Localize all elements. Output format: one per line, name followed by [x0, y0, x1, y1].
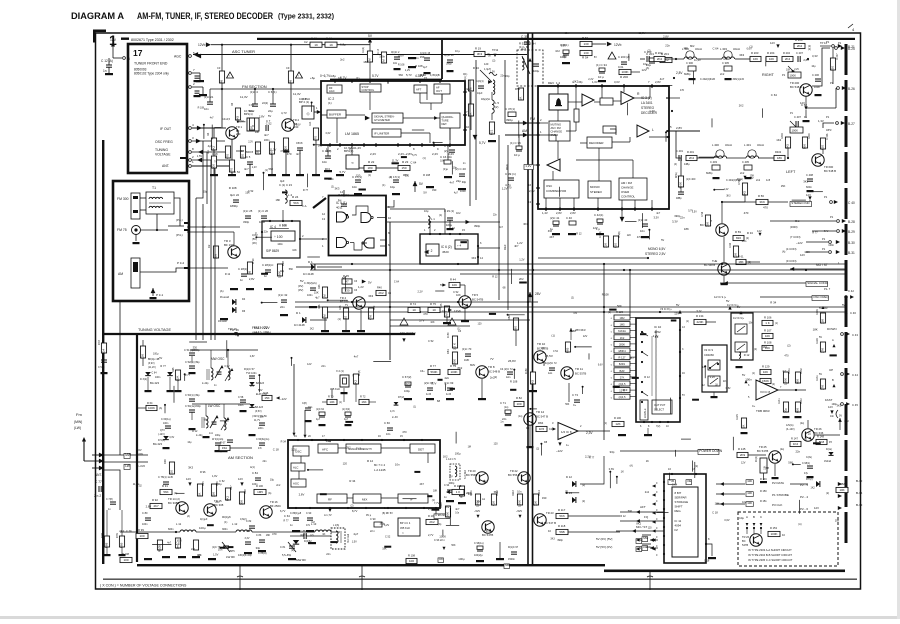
svg-text:FQ: FQ	[644, 515, 649, 519]
grounds row	[210, 174, 218, 176]
svg-text:430(2)3~20p: 430(2)3~20p	[238, 554, 252, 557]
svg-text:R 108: R 108	[602, 293, 609, 297]
svg-text:1K: 1K	[488, 54, 491, 57]
ENABLE box	[640, 400, 648, 420]
svg-text:10n: 10n	[447, 155, 452, 159]
svg-text:56K: 56K	[803, 144, 807, 149]
wire	[140, 268, 184, 272]
svg-text:3,3V: 3,3V	[245, 537, 250, 540]
resistor R108c	[406, 558, 417, 563]
svg-text:C 28(1): C 28(1)	[238, 267, 247, 271]
svg-text:R 203: R 203	[751, 51, 759, 55]
IC10 switches	[642, 332, 648, 336]
svg-text:5.7V: 5.7V	[372, 74, 379, 78]
div4 box	[455, 240, 468, 249]
svg-text:3K3: 3K3	[368, 294, 373, 298]
svg-text:R 5(8): R 5(8)	[599, 231, 602, 238]
nand gate 1	[337, 212, 347, 222]
svg-text:L 1(6): L 1(6)	[333, 524, 339, 527]
wire mw lw	[104, 454, 124, 456]
svg-text:R 123: R 123	[616, 310, 623, 314]
transistor TR26	[750, 534, 762, 546]
svg-text:(2): (2)	[808, 48, 811, 51]
svg-text:18K: 18K	[433, 490, 438, 493]
svg-text:5,5~65p: 5,5~65p	[282, 554, 292, 557]
resistor R75	[428, 307, 440, 312]
svg-text:3K3: 3K3	[335, 187, 340, 191]
svg-text:R 22: R 22	[368, 160, 375, 164]
svg-text:1,5V: 1,5V	[197, 154, 203, 158]
conn B-21	[832, 45, 835, 48]
svg-text:B-26: B-26	[848, 87, 855, 91]
svg-text:R 108: R 108	[764, 341, 772, 345]
svg-text:TR 2: TR 2	[293, 118, 300, 122]
svg-text:560: 560	[823, 306, 828, 310]
svg-text:RF: RF	[328, 498, 332, 502]
resistor R118	[556, 529, 568, 534]
svg-text:R 80: R 80	[446, 332, 450, 338]
svg-text:STORAGE: STORAGE	[675, 500, 689, 504]
grounds la1245	[292, 530, 300, 532]
div2 box	[426, 244, 439, 256]
svg-text:10K: 10K	[747, 479, 752, 483]
AF OUT box	[434, 84, 450, 94]
wire stubs 1	[203, 125, 205, 139]
svg-text:R(1s): R(1s)	[737, 178, 743, 181]
resistor R100b	[612, 421, 624, 426]
svg-text:C 52(1) (39p: C 52(1) (39p	[185, 360, 200, 364]
bandpass BP2	[302, 106, 314, 119]
svg-text:C 66: C 66	[384, 421, 390, 425]
svg-text:10: 10	[344, 316, 348, 320]
svg-text:BC 556B: BC 556B	[466, 473, 477, 477]
svg-text:LA 3401: LA 3401	[641, 101, 653, 105]
resistor R110	[445, 506, 450, 517]
resistor R61b	[140, 346, 145, 358]
IC9a switches	[708, 360, 720, 370]
svg-text:2n2: 2n2	[756, 179, 761, 182]
resistor R7	[240, 146, 245, 158]
long wire mono	[538, 257, 648, 259]
svg-text:(1): (1)	[775, 322, 778, 325]
svg-text:12V: 12V	[110, 38, 117, 42]
svg-text:10K: 10K	[430, 322, 435, 324]
svg-text:(2): (2)	[787, 343, 790, 347]
svg-text:(0V): (0V)	[298, 288, 303, 292]
svg-text:FM 300: FM 300	[117, 197, 129, 201]
svg-text:C 67(2): C 67(2)	[402, 375, 411, 379]
legend type 2331/2302	[121, 38, 129, 40]
svg-text:6,7V: 6,7V	[280, 509, 286, 513]
svg-text:10K: 10K	[715, 501, 720, 505]
resistor R79	[448, 369, 460, 374]
resistor R64	[146, 405, 157, 410]
corner mark	[93, 30, 106, 33]
wire	[140, 229, 168, 231]
svg-text:100K: 100K	[784, 378, 788, 385]
trimmer	[480, 70, 492, 82]
svg-text:TURE: TURE	[442, 119, 449, 123]
svg-text:150K: 150K	[762, 379, 769, 383]
svg-text:1/2 IC 9 (+: 1/2 IC 9 (+	[727, 304, 739, 307]
svg-text:10n: 10n	[260, 416, 265, 419]
IC9 grounds	[711, 396, 718, 398]
svg-text:(1): (1)	[339, 402, 342, 404]
svg-text:1K: 1K	[621, 469, 624, 473]
svg-text:150: 150	[401, 166, 406, 170]
svg-text:(1): (1)	[608, 311, 611, 314]
svg-text:1M: 1M	[382, 59, 386, 64]
resistor ladder R123-R135	[614, 315, 630, 320]
resistor R156	[820, 313, 825, 323]
svg-text:C 52: C 52	[801, 103, 807, 107]
svg-text:4n7: 4n7	[244, 167, 249, 171]
svg-text:C 52: C 52	[428, 339, 434, 343]
svg-text:2,2V: 2,2V	[432, 152, 438, 156]
svg-text:12Vb: 12Vb	[198, 43, 206, 47]
svg-text:68: 68	[766, 466, 770, 470]
svg-text:BA 423: BA 423	[256, 382, 265, 385]
svg-text:AM: AM	[522, 129, 527, 133]
bus wire 1	[295, 301, 538, 303]
wire	[557, 110, 559, 121]
resistor R26	[213, 246, 218, 258]
transistor TR14	[176, 502, 188, 514]
svg-text:10μ: 10μ	[811, 65, 816, 68]
svg-text:R 12: R 12	[644, 375, 650, 379]
AMFM CHANGE OVER CONTROL box	[619, 178, 647, 200]
wire v11	[511, 60, 513, 108]
svg-text:8C 7 C 4: 8C 7 C 4	[374, 463, 385, 467]
svg-text:R 206: R 206	[795, 38, 803, 42]
svg-text:1K: 1K	[715, 384, 718, 387]
svg-text:(A): (A)	[389, 176, 392, 179]
resistor R82	[513, 318, 518, 330]
supply arrow 5V	[413, 181, 418, 186]
resistor R148	[816, 439, 827, 444]
svg-text:R 108: R 108	[415, 64, 423, 68]
svg-text:BC 548 B: BC 548 B	[790, 85, 802, 89]
svg-text:S/P 8629: S/P 8629	[266, 249, 279, 253]
svg-text:R402: R402	[775, 150, 782, 154]
resistor R13	[283, 138, 288, 150]
resistor R11	[211, 156, 216, 168]
trimmer mw	[215, 366, 222, 378]
svg-text:100μ: 100μ	[455, 452, 461, 456]
svg-text:5K6: 5K6	[559, 514, 565, 518]
svg-text:CD4066: CD4066	[704, 353, 714, 357]
svg-text:32mH: 32mH	[757, 143, 764, 147]
IF transformer L16	[331, 528, 345, 549]
wire tr26	[815, 434, 840, 436]
svg-text:150: 150	[831, 66, 835, 71]
transistor TR15	[204, 504, 216, 516]
svg-text:1K5: 1K5	[743, 191, 747, 197]
svg-text:10K: 10K	[769, 57, 774, 61]
svg-text:(2): (2)	[826, 492, 829, 495]
svg-text:1K8: 1K8	[531, 380, 535, 386]
svg-text:MUTING: MUTING	[551, 123, 562, 127]
svg-text:560: 560	[269, 167, 274, 171]
svg-text:8050102 Type 2304 only: 8050102 Type 2304 only	[134, 72, 169, 76]
wire	[321, 114, 327, 116]
svg-text:10: 10	[388, 216, 392, 220]
svg-text:6,8μ: 6,8μ	[340, 43, 346, 47]
svg-text:2,8V: 2,8V	[556, 211, 562, 215]
svg-text:(1) C 36: (1) C 36	[510, 141, 521, 145]
resistor R67	[219, 445, 230, 450]
wire v1	[195, 198, 197, 340]
grounds x2	[341, 392, 348, 394]
svg-text:10μ: 10μ	[270, 478, 275, 481]
resistor R121v	[783, 372, 788, 383]
svg-text:(2): (2)	[310, 533, 313, 537]
svg-text:DOWN: DOWN	[827, 327, 837, 331]
wire drop3	[649, 571, 651, 590]
pins bottom	[545, 208, 547, 210]
svg-text:*YB: *YB	[669, 479, 674, 483]
resistor R112	[491, 494, 496, 505]
svg-text:(2): (2)	[648, 49, 651, 53]
wire mesh fm	[213, 128, 215, 138]
svg-text:(2s): (2s)	[780, 448, 784, 451]
svg-text:C 44: C 44	[852, 373, 858, 377]
svg-text:22n: 22n	[796, 450, 801, 454]
svg-text:R110: R110	[440, 502, 443, 508]
svg-text:5V: 5V	[839, 414, 842, 417]
svg-text:1K5: 1K5	[539, 427, 545, 431]
IC U6 4520 box	[420, 234, 478, 264]
IC U7 LA1245 box	[288, 440, 440, 508]
svg-text:BC 548 B: BC 548 B	[488, 370, 500, 374]
svg-text:18K: 18K	[214, 254, 218, 259]
resistor R74	[408, 307, 420, 312]
capacitor C1	[195, 75, 200, 77]
svg-text:100n: 100n	[745, 378, 752, 382]
svg-text:1M: 1M	[323, 294, 327, 299]
svg-text:R113: R113	[512, 490, 515, 496]
svg-text:1 K: 1 K	[456, 490, 461, 494]
svg-text:1M: 1M	[445, 313, 449, 318]
OUTPUT SELECT box	[652, 400, 672, 414]
svg-text:B: B	[832, 378, 834, 382]
svg-text:22n: 22n	[445, 376, 450, 380]
supply 5V top	[368, 38, 372, 43]
svg-text:(2): (2)	[536, 448, 539, 451]
transistor TR200	[800, 84, 812, 96]
svg-text:56K: 56K	[563, 56, 568, 59]
svg-text:26,8V: 26,8V	[508, 359, 516, 363]
svg-text:0μC 22: 0μC 22	[230, 193, 240, 197]
svg-text:1,2V: 1,2V	[519, 258, 525, 262]
SIGNAL STRENGTH box	[346, 444, 381, 453]
IC10 bottom pins	[643, 421, 645, 423]
svg-text:Fm: Fm	[76, 412, 82, 417]
svg-text:(1): (1)	[413, 406, 416, 408]
svg-text:0,6V: 0,6V	[598, 364, 603, 366]
svg-text:100μ: 100μ	[458, 557, 465, 561]
resistor R77	[428, 369, 440, 374]
svg-text:R89: R89	[120, 542, 124, 548]
svg-text:R 17: R 17	[377, 48, 380, 54]
ground cluster	[230, 288, 238, 290]
svg-text:R42: R42	[373, 305, 376, 310]
wire v12	[603, 264, 605, 440]
svg-text:R38: R38	[339, 305, 342, 310]
svg-text:R 77: R 77	[430, 364, 436, 368]
svg-text:P1: P1	[826, 115, 830, 119]
svg-text:1K: 1K	[519, 97, 523, 101]
bottom thin line	[103, 579, 857, 580]
svg-text:2n2: 2n2	[340, 58, 345, 62]
svg-text:C 42: C 42	[848, 289, 854, 293]
svg-text:4.8μ: 4.8μ	[330, 74, 336, 78]
svg-text:BC 547B: BC 547B	[757, 449, 768, 453]
resistor R115	[452, 489, 464, 494]
svg-text:10K: 10K	[765, 334, 770, 338]
IC2 pin ticks	[329, 143, 331, 147]
resistor R59	[733, 235, 744, 240]
svg-text:(8) RF 5V: (8) RF 5V	[382, 512, 393, 515]
svg-text:C(2)(1): C(2)(1)	[476, 80, 484, 83]
svg-text:100n: 100n	[142, 523, 148, 526]
svg-text:C 401: C 401	[676, 149, 683, 153]
svg-text:1,2V: 1,2V	[252, 166, 257, 169]
svg-text:C 18: C 18	[212, 152, 218, 156]
svg-text:10,7MHz: 10,7MHz	[244, 109, 255, 113]
svg-text:4n7: 4n7	[656, 212, 661, 215]
filter rect	[600, 98, 613, 105]
svg-text:C4n4,5: C4n4,5	[222, 118, 231, 121]
svg-text:820: 820	[614, 243, 618, 248]
svg-text:C 45: C 45	[852, 403, 858, 407]
outer border frame	[96, 33, 861, 589]
antenna box	[113, 181, 189, 301]
svg-text:BC 557B: BC 557B	[575, 372, 586, 376]
svg-text:1,2V: 1,2V	[463, 308, 468, 310]
resistor R40	[376, 290, 386, 295]
svg-text:100K: 100K	[770, 532, 777, 536]
svg-text:OVER: OVER	[621, 190, 629, 194]
resistor R202	[654, 56, 665, 61]
svg-text:3K3: 3K3	[622, 388, 628, 392]
wire bp2 out	[314, 111, 320, 113]
strobe wire	[746, 492, 753, 497]
svg-text:1 K: 1 K	[765, 321, 770, 325]
svg-text:(A): (A)	[318, 144, 322, 148]
svg-text:9V μ: 9V μ	[366, 514, 372, 517]
svg-text:R 54: R 54	[582, 56, 589, 60]
svg-text:R105: R105	[158, 545, 162, 553]
svg-text:R 145: R 145	[738, 447, 746, 451]
svg-text:4n7: 4n7	[660, 77, 665, 81]
svg-text:(1) C 26: (1) C 26	[258, 209, 269, 213]
svg-text:4K7: 4K7	[514, 245, 519, 248]
wire drop4	[457, 540, 459, 563]
svg-text:C 407: C 407	[794, 115, 801, 119]
svg-text:5,7V: 5,7V	[688, 211, 693, 213]
svg-text:POWER DOWN: POWER DOWN	[699, 449, 723, 453]
heavy rail B	[532, 33, 534, 565]
pot arrow	[465, 82, 476, 92]
svg-text:(Type 2331, 2332): (Type 2331, 2332)	[278, 14, 334, 21]
ground bars extra 2	[438, 379, 443, 381]
svg-text:(2): (2)	[772, 383, 775, 386]
svg-text:C5C8: C5C8	[296, 142, 303, 145]
svg-text:2n2: 2n2	[445, 505, 450, 509]
svg-text:470: 470	[763, 205, 768, 209]
svg-text:10K: 10K	[786, 68, 791, 71]
op-amp A1	[582, 94, 594, 106]
svg-text:12K: 12K	[141, 354, 145, 359]
clk wire	[746, 502, 753, 507]
svg-text:4520: 4520	[442, 250, 449, 254]
svg-text:A(1): A(1)	[250, 466, 255, 469]
svg-text:68: 68	[342, 276, 346, 280]
svg-text:32mH: 32mH	[725, 143, 732, 147]
svg-text:120: 120	[684, 47, 689, 50]
wire la1245	[435, 508, 437, 514]
IC2 right pin ticks	[463, 91, 467, 93]
svg-text:5V [5V] (0V): 5V [5V] (0V)	[596, 545, 612, 549]
resistor R50	[518, 88, 523, 100]
svg-text:1K2: 1K2	[443, 455, 448, 459]
svg-text:R1(2): R1(2)	[362, 47, 365, 53]
svg-text:2,2V~2,8V: 2,2V~2,8V	[398, 152, 412, 156]
svg-text:12V: 12V	[186, 477, 191, 481]
svg-text:5,7V: 5,7V	[431, 382, 436, 385]
svg-text:TR 26: TR 26	[742, 535, 750, 539]
svg-text:MIX: MIX	[362, 498, 367, 502]
svg-text:5V: 5V	[268, 114, 271, 118]
svg-text:10n: 10n	[517, 489, 522, 493]
svg-text:TUNER FRONT END: TUNER FRONT END	[134, 62, 168, 66]
svg-text:C 64: C 64	[152, 371, 158, 374]
resistor R406	[820, 138, 825, 149]
svg-text:C 39 (1): C 39 (1)	[505, 172, 516, 176]
wire bundle	[196, 141, 203, 198]
svg-text:11,3V: 11,3V	[240, 95, 248, 99]
svg-text:48: 48	[220, 80, 224, 84]
svg-text:VOLTAGE: VOLTAGE	[155, 153, 171, 157]
svg-text:R(4s): R(4s)	[676, 172, 678, 178]
pin stubs IC6	[429, 233, 431, 235]
svg-text:(1): (1)	[423, 157, 426, 160]
svg-text:3K3: 3K3	[803, 180, 808, 184]
svg-text:C 16: C 16	[440, 155, 447, 159]
svg-text:560: 560	[571, 329, 576, 333]
svg-text:CONTROL: CONTROL	[621, 195, 636, 199]
svg-text:TR 4: TR 4	[340, 296, 347, 300]
svg-text:R95: R95	[202, 481, 205, 486]
svg-text:10,7MHz: 10,7MHz	[344, 146, 356, 150]
svg-text:TR 5: TR 5	[472, 293, 479, 297]
OSC box	[293, 446, 309, 456]
IC10 gnd	[618, 434, 626, 436]
svg-text:12: 12	[322, 212, 326, 216]
svg-text:C 305: C 305	[722, 61, 729, 65]
svg-text:C 54(1s)330p: C 54(1s)330p	[185, 404, 201, 408]
resistor R107b	[762, 333, 773, 338]
svg-text:R 12: R 12	[225, 273, 231, 276]
svg-text:2,2V: 2,2V	[370, 152, 376, 156]
svg-text:61K2A: 61K2A	[618, 329, 626, 333]
svg-text:L 11: L 11	[176, 522, 182, 526]
svg-text:11,3V: 11,3V	[392, 158, 399, 162]
resistor R125v	[741, 418, 746, 428]
svg-text:L 303: L 303	[720, 47, 727, 51]
STOP CONTROL box	[360, 84, 381, 92]
